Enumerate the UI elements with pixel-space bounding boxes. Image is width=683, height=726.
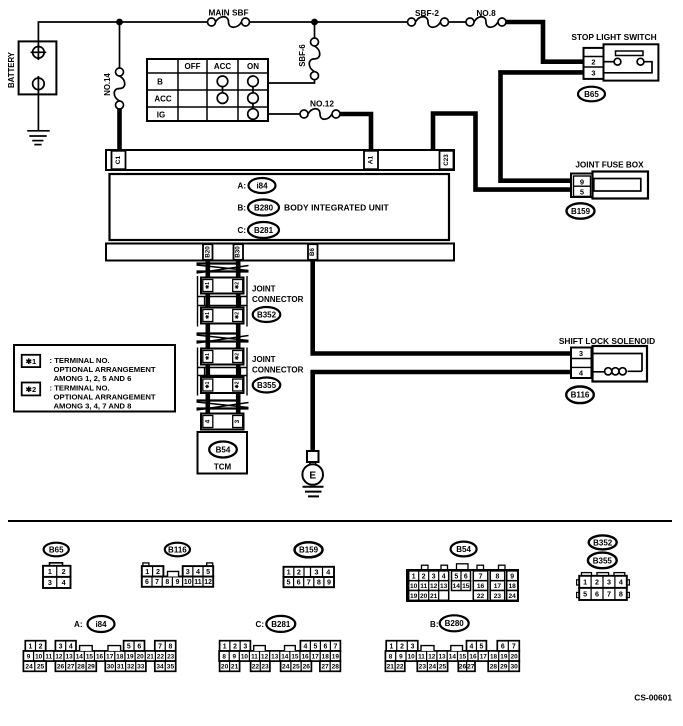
svg-text:9: 9 [399, 653, 403, 660]
svg-text:18: 18 [509, 583, 517, 590]
svg-text:CS-00601: CS-00601 [634, 693, 672, 703]
wire junction to fuse SBF-6 [314, 22, 316, 38]
svg-text:13: 13 [66, 653, 74, 660]
svg-text:20: 20 [511, 653, 519, 660]
svg-text:7: 7 [307, 578, 311, 587]
svg-text:1: 1 [223, 643, 227, 650]
svg-text:26: 26 [57, 664, 65, 671]
svg-text:4: 4 [196, 567, 200, 576]
svg-text:29: 29 [88, 664, 96, 671]
svg-text:5: 5 [480, 643, 484, 650]
svg-text:B116: B116 [168, 545, 187, 554]
svg-text:NO.14: NO.14 [103, 73, 112, 96]
svg-text:20: 20 [221, 664, 229, 671]
svg-text:25: 25 [292, 664, 300, 671]
svg-text:B281: B281 [254, 226, 274, 235]
wire B30 to TCM pin 3 [236, 261, 241, 414]
svg-text:2: 2 [233, 643, 237, 650]
svg-text:JOINT FUSE BOX: JOINT FUSE BOX [575, 161, 644, 170]
svg-text:3: 3 [411, 643, 415, 650]
svg-text:25: 25 [37, 664, 45, 671]
svg-text:14: 14 [76, 653, 84, 660]
svg-text:9: 9 [510, 573, 514, 580]
wire shift lock solenoid pin 4 to ground [313, 372, 572, 451]
connector tab B30 [234, 244, 244, 260]
svg-text:12: 12 [204, 579, 212, 586]
svg-text:16: 16 [469, 653, 477, 660]
svg-text:STOP LIGHT SWITCH: STOP LIGHT SWITCH [571, 32, 656, 42]
svg-text:34: 34 [156, 664, 164, 671]
svg-text:12: 12 [428, 653, 436, 660]
svg-text:5: 5 [580, 188, 584, 197]
svg-text:8: 8 [169, 643, 173, 650]
connector label B116 (pinout) [165, 543, 190, 557]
stop light switch body [604, 44, 659, 80]
svg-text:8: 8 [619, 590, 623, 599]
svg-text:10: 10 [410, 583, 418, 590]
svg-text:B6: B6 [309, 247, 316, 256]
TCM unit [198, 432, 248, 474]
svg-text:15: 15 [86, 653, 94, 660]
svg-text:28: 28 [332, 664, 340, 671]
svg-text:9: 9 [327, 578, 331, 587]
svg-text:7: 7 [158, 643, 162, 650]
connector B116 pinout [143, 563, 149, 566]
svg-text:2: 2 [297, 568, 301, 577]
svg-text:9: 9 [232, 653, 236, 660]
connector B281 pinout [219, 651, 340, 661]
svg-text:AMONG 1, 2, 5 AND 6: AMONG 1, 2, 5 AND 6 [54, 374, 132, 383]
svg-text:C23: C23 [443, 154, 450, 166]
svg-text:JOINT: JOINT [252, 285, 276, 294]
svg-text:3: 3 [315, 568, 319, 577]
svg-text:6: 6 [595, 590, 599, 599]
svg-text:19: 19 [410, 593, 418, 600]
TCM connector row B54 [201, 414, 244, 430]
svg-text:16: 16 [477, 583, 485, 590]
svg-text:9: 9 [27, 653, 31, 660]
connector B65 pinout [50, 563, 63, 566]
svg-text:1: 1 [390, 643, 394, 650]
svg-text:5: 5 [454, 573, 458, 580]
ground (battery) [27, 130, 50, 132]
svg-text:1: 1 [412, 573, 416, 580]
svg-text:7: 7 [155, 579, 159, 586]
svg-text:23: 23 [494, 593, 502, 600]
battery + terminal [33, 47, 45, 59]
svg-text:21: 21 [147, 653, 155, 660]
svg-text:8: 8 [317, 578, 321, 587]
svg-text:19: 19 [332, 653, 340, 660]
svg-text:BATTERY: BATTERY [7, 51, 16, 88]
svg-text:E: E [309, 470, 316, 481]
svg-text:30: 30 [107, 664, 115, 671]
svg-text:B54: B54 [216, 445, 231, 454]
wire SBF-6 to ignition switch B row [268, 80, 315, 83]
svg-text:6: 6 [323, 643, 327, 650]
svg-text:✱2: ✱2 [235, 282, 241, 289]
svg-text:: TERMINAL NO.: : TERMINAL NO. [50, 384, 110, 393]
svg-text:B:: B: [430, 620, 438, 629]
svg-text:AMONG 3, 4, 7 AND 8: AMONG 3, 4, 7 AND 8 [54, 402, 133, 411]
svg-text:9: 9 [176, 579, 180, 586]
svg-text:B:: B: [238, 203, 246, 212]
svg-text:SBF-6: SBF-6 [298, 44, 307, 67]
battery - terminal [33, 78, 45, 90]
svg-text:IG: IG [157, 110, 165, 119]
wire battery to MAIN SBF [38, 22, 207, 48]
svg-text:15: 15 [291, 653, 299, 660]
svg-text:A:: A: [238, 181, 246, 190]
connector tab B6 [308, 244, 318, 260]
svg-text:JOINT: JOINT [252, 355, 276, 364]
svg-text:14: 14 [453, 583, 461, 590]
connector label B355 (pinout) [588, 553, 617, 569]
svg-text:20: 20 [137, 653, 145, 660]
svg-text:6: 6 [145, 579, 149, 586]
svg-text:B54: B54 [456, 545, 471, 554]
svg-text:1: 1 [287, 568, 291, 577]
svg-text:11: 11 [251, 653, 258, 660]
svg-text:6: 6 [297, 578, 301, 587]
svg-text:12: 12 [261, 653, 269, 660]
svg-text:BODY INTEGRATED UNIT: BODY INTEGRATED UNIT [284, 203, 390, 213]
svg-text:ON: ON [247, 62, 259, 71]
fuse MAIN SBF [208, 18, 216, 26]
svg-text:8: 8 [165, 579, 169, 586]
svg-text:2: 2 [591, 58, 595, 67]
svg-text:23: 23 [419, 664, 427, 671]
connector label B159 [567, 203, 595, 218]
stop light switch connector B65 [584, 48, 604, 79]
svg-text:4: 4 [69, 643, 73, 650]
connector B54 pinout [422, 565, 429, 570]
svg-text:1: 1 [48, 567, 52, 576]
svg-text:B30: B30 [235, 246, 242, 258]
body integrated unit bottom connector row [106, 244, 454, 261]
svg-text:OFF: OFF [185, 62, 201, 71]
svg-text:5: 5 [583, 590, 587, 599]
svg-text:✱2: ✱2 [235, 312, 241, 319]
svg-text:OPTIONAL ARRANGEMENT: OPTIONAL ARRANGEMENT [54, 365, 156, 374]
svg-text:17: 17 [312, 653, 320, 660]
svg-text:1: 1 [583, 577, 587, 586]
svg-text:: TERMINAL NO.: : TERMINAL NO. [50, 356, 110, 365]
svg-text:ACC: ACC [214, 62, 232, 71]
note box terminal arrangement [14, 345, 175, 412]
svg-text:ACC: ACC [154, 95, 172, 104]
svg-text:32: 32 [127, 664, 135, 671]
svg-text:12: 12 [430, 583, 438, 590]
svg-text:A:: A: [74, 620, 82, 629]
svg-text:11: 11 [45, 653, 52, 660]
connector tab C1 [112, 151, 126, 169]
svg-text:TCM: TCM [214, 463, 232, 472]
svg-text:16: 16 [301, 653, 309, 660]
svg-text:3: 3 [186, 567, 190, 576]
svg-text:21: 21 [430, 593, 438, 600]
svg-text:4: 4 [326, 568, 330, 577]
svg-text:5: 5 [127, 643, 131, 650]
solenoid coil [592, 354, 643, 372]
svg-text:8: 8 [222, 653, 226, 660]
svg-text:19: 19 [126, 653, 134, 660]
svg-text:SBF-2: SBF-2 [415, 8, 439, 18]
svg-text:B159: B159 [299, 546, 319, 555]
svg-text:7: 7 [479, 573, 483, 580]
svg-text:B355: B355 [593, 556, 613, 565]
svg-text:3: 3 [59, 643, 63, 650]
svg-text:11: 11 [420, 583, 427, 590]
svg-text:12: 12 [55, 653, 63, 660]
shift lock solenoid body [593, 346, 648, 382]
svg-text:30: 30 [510, 664, 518, 671]
svg-text:28: 28 [77, 664, 85, 671]
svg-text:✱1: ✱1 [205, 353, 211, 360]
svg-text:28: 28 [490, 664, 498, 671]
wire B6 to shift lock solenoid pin 3 [310, 261, 571, 354]
svg-text:13: 13 [271, 653, 279, 660]
svg-text:OPTIONAL ARRANGEMENT: OPTIONAL ARRANGEMENT [54, 393, 156, 402]
svg-text:B352: B352 [593, 538, 613, 547]
svg-text:3: 3 [48, 578, 52, 587]
fuse SBF-6 [311, 38, 319, 46]
svg-text:22: 22 [252, 664, 260, 671]
wire battery negative to ground [37, 90, 39, 131]
svg-text:B281: B281 [271, 620, 291, 629]
wire B20 to TCM pin 4 [206, 261, 211, 414]
connector label B281 [248, 222, 279, 238]
svg-text:24: 24 [25, 664, 33, 671]
joint fuse box body [593, 172, 649, 199]
svg-text:21: 21 [231, 664, 239, 671]
svg-text:26: 26 [459, 664, 467, 671]
svg-text:18: 18 [116, 653, 124, 660]
svg-text:2: 2 [156, 567, 160, 576]
svg-text:C:: C: [256, 620, 264, 629]
svg-text:1: 1 [28, 643, 32, 650]
svg-text:2: 2 [422, 573, 426, 580]
connector label B65 [578, 87, 605, 102]
svg-text:2: 2 [62, 567, 66, 576]
svg-text:3: 3 [579, 349, 583, 358]
connector label B65 (pinout) [44, 543, 69, 557]
svg-text:14: 14 [449, 653, 457, 660]
svg-text:35: 35 [167, 664, 175, 671]
svg-text:17: 17 [106, 653, 114, 660]
svg-text:✱1: ✱1 [205, 282, 211, 289]
svg-text:10: 10 [241, 653, 249, 660]
joint connector B355 [197, 348, 199, 396]
connector label B352 [253, 307, 281, 322]
connector label i84 [249, 178, 276, 193]
svg-text:31: 31 [117, 664, 125, 671]
svg-text:14: 14 [281, 653, 289, 660]
svg-text:B355: B355 [257, 381, 277, 390]
connector tab C23 [440, 151, 454, 169]
node junction NO.14 tap [116, 19, 123, 26]
wire C23 to joint fuse box pin 5 [433, 114, 572, 190]
svg-text:✱2: ✱2 [235, 353, 241, 360]
connector label B159 (pinout) [295, 542, 323, 557]
body integrated unit top connector row [106, 150, 454, 170]
svg-text:18: 18 [322, 653, 330, 660]
svg-text:B280: B280 [445, 619, 465, 628]
svg-text:27: 27 [321, 664, 329, 671]
svg-text:3: 3 [234, 419, 241, 423]
svg-text:3: 3 [607, 577, 611, 586]
svg-text:27: 27 [67, 664, 75, 671]
wire crossing (twisted) between B352 and B355 [197, 332, 238, 334]
svg-text:8: 8 [389, 653, 393, 660]
svg-text:3: 3 [432, 573, 436, 580]
svg-text:5: 5 [206, 567, 210, 576]
svg-text:21: 21 [387, 664, 395, 671]
fuse SBF-2 [408, 18, 416, 26]
svg-text:B20: B20 [204, 246, 211, 258]
wire ignition IG row to fuse NO.12 [268, 113, 300, 115]
svg-text:4: 4 [442, 573, 446, 580]
svg-text:✱2: ✱2 [26, 385, 37, 394]
connector B280 pinout [385, 651, 519, 661]
svg-text:15: 15 [459, 653, 467, 660]
svg-text:8: 8 [496, 573, 500, 580]
shift lock solenoid connector B116 [571, 348, 592, 379]
wire NO.14 to C1 [117, 109, 122, 151]
svg-text:7: 7 [512, 643, 516, 650]
svg-text:25: 25 [439, 664, 447, 671]
separator line [8, 520, 672, 522]
svg-text:13: 13 [440, 583, 448, 590]
wire crossing (twisted) above B352 [197, 262, 238, 264]
fuse NO.8 [466, 18, 474, 26]
svg-text:CONNECTOR: CONNECTOR [252, 295, 304, 304]
svg-text:4: 4 [303, 643, 307, 650]
body integrated unit main box [110, 174, 450, 240]
svg-text:A1: A1 [368, 155, 375, 164]
svg-text:NO.12: NO.12 [310, 99, 334, 109]
connector label B355 [253, 378, 281, 393]
svg-text:16: 16 [96, 653, 104, 660]
svg-text:C1: C1 [115, 155, 122, 164]
svg-text:2: 2 [400, 643, 404, 650]
svg-text:18: 18 [490, 653, 498, 660]
svg-text:11: 11 [194, 579, 201, 586]
connector label B54 (pinout) [451, 542, 477, 557]
svg-text:33: 33 [137, 664, 145, 671]
svg-text:i84: i84 [256, 181, 268, 190]
svg-text:B116: B116 [571, 391, 590, 400]
svg-text:13: 13 [438, 653, 446, 660]
svg-text:7: 7 [333, 643, 337, 650]
svg-text:B352: B352 [257, 310, 277, 319]
svg-text:CONNECTOR: CONNECTOR [252, 366, 304, 375]
svg-text:15: 15 [462, 583, 470, 590]
svg-text:3: 3 [243, 643, 247, 650]
wire SBF-2 to NO.8 [449, 21, 467, 23]
svg-text:9: 9 [580, 177, 584, 186]
svg-text:B65: B65 [49, 545, 64, 554]
battery [19, 41, 57, 94]
svg-text:6: 6 [137, 643, 141, 650]
svg-text:NO.8: NO.8 [476, 8, 496, 18]
svg-text:22: 22 [477, 593, 485, 600]
svg-text:19: 19 [500, 653, 508, 660]
connector tab B20 [203, 244, 213, 260]
svg-text:2: 2 [39, 643, 43, 650]
svg-text:6: 6 [501, 643, 505, 650]
svg-text:10: 10 [184, 579, 192, 586]
svg-text:29: 29 [500, 664, 508, 671]
connector B159 pinout [284, 567, 335, 577]
connector B352/B355 pinout [582, 573, 592, 576]
svg-text:4: 4 [619, 577, 623, 586]
svg-text:22: 22 [157, 653, 165, 660]
svg-text:5: 5 [287, 578, 291, 587]
svg-text:7: 7 [607, 590, 611, 599]
svg-text:SHIFT LOCK SOLENOID: SHIFT LOCK SOLENOID [559, 336, 655, 346]
wire MAIN SBF to SBF-2 [250, 21, 408, 23]
svg-text:B65: B65 [584, 90, 599, 99]
svg-text:26: 26 [303, 664, 311, 671]
joint fuse box connector B159 [571, 174, 593, 198]
svg-text:5: 5 [313, 643, 317, 650]
svg-text:24: 24 [282, 664, 290, 671]
svg-text:B: B [157, 78, 163, 87]
connector label B54 [209, 442, 237, 458]
svg-text:22: 22 [396, 664, 404, 671]
svg-text:✱1: ✱1 [26, 357, 37, 366]
fuse NO.14 [116, 68, 124, 76]
svg-text:23: 23 [167, 653, 175, 660]
svg-text:B159: B159 [571, 207, 591, 216]
svg-text:23: 23 [261, 664, 269, 671]
svg-text:B280: B280 [254, 203, 274, 212]
svg-text:4: 4 [470, 643, 474, 650]
svg-text:24: 24 [429, 664, 437, 671]
svg-text:11: 11 [418, 653, 425, 660]
ignition switch contacts [217, 76, 228, 87]
wire crossing (twisted) above TCM [197, 399, 238, 401]
wire junction to fuse NO.14 [119, 22, 121, 68]
svg-text:C:: C: [238, 226, 246, 235]
svg-text:4: 4 [204, 419, 211, 423]
svg-text:i84: i84 [95, 620, 107, 629]
connector label B352 (pinout) [589, 535, 617, 549]
svg-text:20: 20 [420, 593, 428, 600]
svg-text:27: 27 [467, 664, 475, 671]
svg-text:17: 17 [494, 583, 502, 590]
svg-text:10: 10 [408, 653, 416, 660]
connector label B280 [248, 200, 279, 216]
svg-text:MAIN SBF: MAIN SBF [208, 8, 248, 18]
connector label B116 [566, 387, 594, 404]
svg-text:1: 1 [145, 567, 149, 576]
svg-text:✱1: ✱1 [205, 312, 211, 319]
svg-text:3: 3 [591, 69, 595, 78]
connector tab A1 [364, 151, 378, 169]
svg-text:10: 10 [35, 653, 43, 660]
node junction SBF-6 tap [311, 19, 318, 26]
svg-text:✱2: ✱2 [235, 381, 241, 388]
svg-text:24: 24 [509, 593, 517, 600]
wire NO.12 to A1 [340, 114, 371, 151]
fuse NO.12 [300, 110, 308, 118]
ignition switch table [147, 59, 268, 121]
svg-text:2: 2 [595, 577, 599, 586]
ground E [307, 451, 319, 462]
svg-text:4: 4 [62, 578, 66, 587]
